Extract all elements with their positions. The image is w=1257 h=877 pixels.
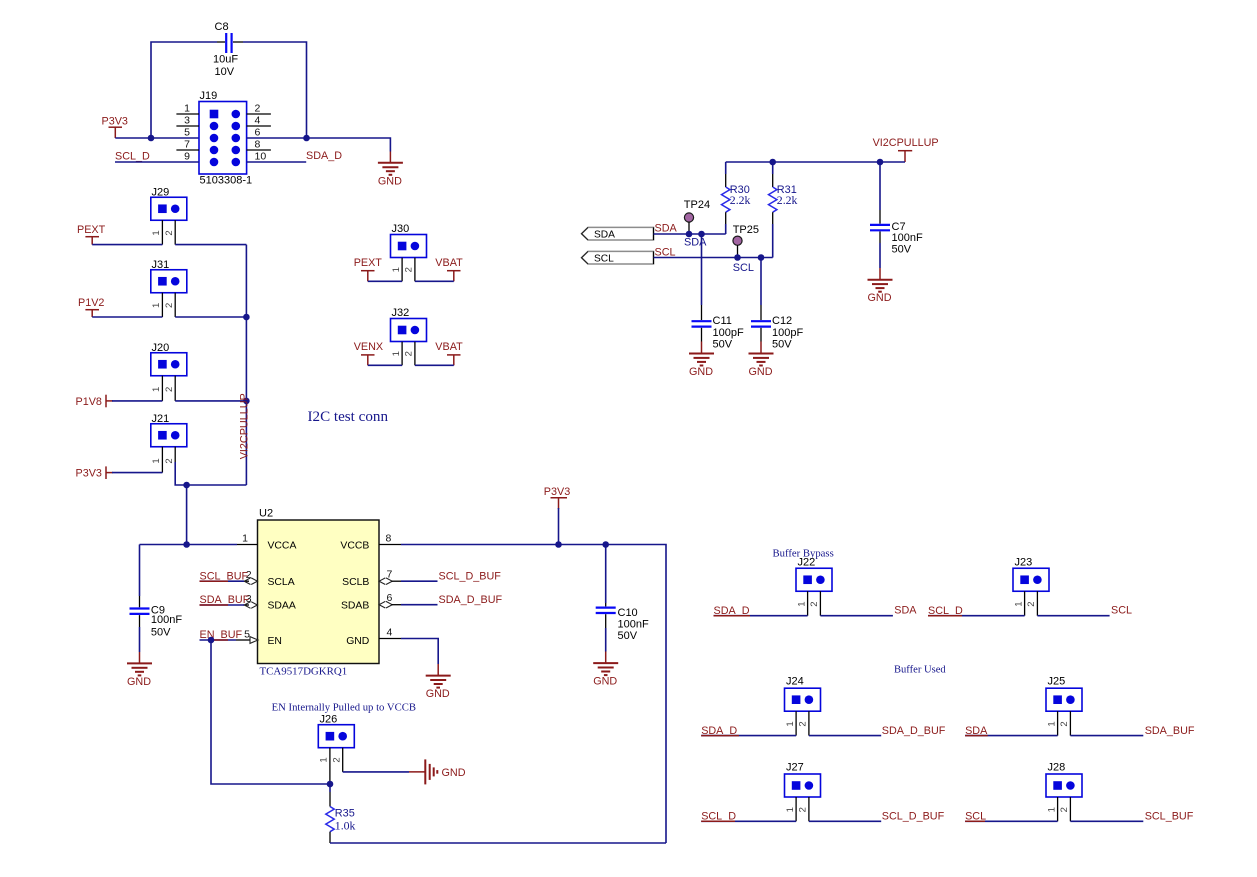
svg-text:5: 5 [184,127,190,139]
wire J29 pin2 to bus [175,244,246,246]
node junction EN/R35/J26 [327,781,334,788]
wire J30 pin2 to VBAT [415,280,454,282]
svg-text:J25: J25 [1048,676,1066,688]
svg-text:VI2CPULLUP: VI2CPULLUP [873,137,939,149]
svg-text:C10: C10 [618,607,638,619]
pin 6 J19 [255,127,261,139]
capacitor C7 [870,162,923,280]
svg-text:1: 1 [391,267,402,272]
power P3V3 (U2) [544,486,570,545]
svg-text:C12: C12 [772,315,792,327]
wire J26 pin2 to GND [343,771,426,773]
svg-text:EN Internally Pulled up to VCC: EN Internally Pulled up to VCCB [272,702,416,714]
svg-text:VENX: VENX [354,341,383,353]
connector J21 [151,413,187,447]
pin 1 U2 VCCA [237,533,258,545]
connector J28 [1046,762,1082,798]
wire PEXT to J30 pin1 [368,280,402,282]
pin 1 J24 [785,711,796,735]
ground GND (J19) [378,152,403,188]
svg-text:TP24: TP24 [684,199,710,211]
svg-text:4: 4 [255,115,261,127]
pin 1 J21 [151,447,162,473]
connector J19 [199,90,252,187]
svg-text:1: 1 [391,351,402,356]
svg-text:EN: EN [268,636,282,647]
pin 3 J19 [176,115,199,127]
pin 4 U2 GND [379,627,401,639]
ground GND (C12) [749,354,774,379]
wire P1V2 to J31 pin1 [92,316,162,318]
svg-text:2: 2 [798,721,809,726]
svg-text:6: 6 [387,592,393,604]
wire VENX to J32 pin1 [368,364,402,366]
net SCL_D (J19 pin9) [115,151,199,163]
node junction J21 pin2 / down wire [183,482,190,489]
svg-text:P3V3: P3V3 [544,486,570,498]
test point TP25 [733,224,759,257]
wire C8 left branch [151,42,217,138]
svg-text:2: 2 [164,230,175,235]
svg-text:10V: 10V [215,66,235,78]
connector J32 [391,307,427,342]
net SCL_BUF [200,571,249,583]
power P1V8 (J20) [76,395,114,408]
net SCL_BUF wire (J28 right) [1070,811,1193,823]
pin 2 J29 [164,220,175,244]
pin 1 J20 [151,376,162,401]
net SDA_D (J19 pin10) [247,150,343,162]
wire J31 pin2 to bus [175,316,246,318]
svg-text:SDAB: SDAB [341,601,369,612]
wire P3V3 to J19 pin5 [115,137,199,139]
node junction SCL/TP25 [734,254,741,261]
svg-text:GND: GND [442,767,466,779]
svg-text:5103308-1: 5103308-1 [200,175,253,187]
svg-text:SCL: SCL [733,262,754,274]
connector J22 [796,557,832,592]
svg-text:7: 7 [184,139,190,151]
svg-text:U2: U2 [259,508,273,520]
wire R35 bottom to right rail [330,842,666,844]
svg-text:2: 2 [404,267,415,272]
svg-text:P3V3: P3V3 [76,468,102,480]
node junction C10/VCCB [602,541,609,548]
net SDA wire (J22 right) [820,605,917,617]
net SCL_D wire (J27 left) [701,811,796,823]
svg-text:SDA_BUF: SDA_BUF [1145,725,1195,737]
svg-text:SCL_D_BUF: SCL_D_BUF [882,811,945,823]
pin 2 J27 [798,797,809,821]
net SDA wire (J25 left) [965,725,1058,737]
svg-text:2: 2 [1059,807,1070,812]
svg-text:7: 7 [387,569,393,581]
wire J20 pin2 to bus [175,400,246,402]
net SCL wire (J23 right) [1037,605,1132,617]
node junction SDA/TP24 [686,231,693,238]
svg-text:SDAA: SDAA [268,601,296,612]
pin 2 J26 [332,748,343,772]
pin 1 J27 [785,797,796,821]
svg-text:5: 5 [244,629,250,641]
svg-text:100nF: 100nF [618,619,649,631]
power VBAT (J32) [435,341,463,366]
net SCL_D wire (J23 left) [928,605,1025,617]
resistor R35 [326,784,356,843]
svg-text:SDA: SDA [594,230,615,241]
power P3V3 (J19) [102,116,128,139]
svg-text:J19: J19 [200,90,218,102]
svg-text:VBAT: VBAT [435,257,463,269]
net EN_BUF [200,629,243,641]
svg-text:P1V8: P1V8 [76,396,102,408]
svg-text:J24: J24 [786,676,804,688]
wire EN_BUF vertical [211,640,330,784]
svg-text:100nF: 100nF [151,614,182,626]
svg-text:Buffer Used: Buffer Used [894,665,946,676]
svg-text:1: 1 [796,601,807,606]
node junction rail/R31 [769,159,776,166]
ground GND (J26, rotated) [425,759,465,784]
pin 8 U2 VCCB [379,533,401,545]
ground GND (C10) [593,663,618,688]
svg-text:J27: J27 [786,762,804,774]
capacitor C8 [213,21,243,78]
svg-text:8: 8 [255,139,261,151]
port SCL (off-page flag) [582,251,654,264]
svg-text:SDA_D: SDA_D [306,150,342,162]
pin 1 J19 [176,103,199,115]
wire SCL_D_BUF [401,571,501,583]
svg-text:10uF: 10uF [213,54,238,66]
net SDA_D wire (J22 left) [714,605,808,617]
net SCL_D_BUF wire (J27 right) [809,811,945,823]
connector J30 [391,223,427,258]
wire SDA_D_BUF [401,594,503,606]
svg-text:1: 1 [1046,721,1057,726]
power P3V3 (J21) [76,466,114,479]
svg-text:1: 1 [242,533,248,545]
capacitor C10 [596,545,649,664]
pin 1 J23 [1013,591,1024,616]
connector J24 [785,676,821,712]
connector J23 [1013,557,1049,592]
pin 2 J25 [1059,711,1070,735]
connector J27 [785,762,821,798]
note Buffer Bypass [773,548,834,560]
capacitor C9 [130,545,183,664]
pin 7 J19 [176,139,199,151]
connector J25 [1046,676,1082,712]
svg-text:VCCB: VCCB [340,540,369,551]
svg-text:I2C test conn: I2C test conn [308,409,389,425]
svg-text:J32: J32 [392,307,410,319]
pin 2 J32 [404,342,415,366]
wire C8 right branch [243,42,307,138]
net VI2CPULLUP power symbol (top right) [873,137,939,162]
svg-text:50V: 50V [892,244,912,256]
svg-text:100pF: 100pF [713,327,744,339]
svg-text:10: 10 [255,151,267,163]
wire VCCA net [140,544,238,546]
svg-text:SDA_D_BUF: SDA_D_BUF [882,725,946,737]
connector J29 [151,187,187,221]
note I2C test conn [308,409,389,425]
connector J20 [151,342,187,376]
node junction SDA/C11 [698,231,705,238]
node junction SCL/C12 [758,254,765,261]
pin 9 J19 [184,151,190,163]
node junction C8-left / pin5 wire [148,135,155,142]
svg-text:SCLB: SCLB [342,577,369,588]
net SDA_D wire (J24 left) [701,725,796,737]
svg-text:50V: 50V [713,338,733,350]
svg-text:4: 4 [387,627,393,639]
svg-text:1: 1 [184,103,190,115]
svg-text:50V: 50V [151,627,171,639]
node bus junction at J31 [243,314,250,321]
svg-text:1: 1 [1013,601,1024,606]
svg-text:PEXT: PEXT [354,257,383,269]
svg-text:SDA: SDA [894,605,917,617]
svg-text:SDA_D_BUF: SDA_D_BUF [439,594,503,606]
svg-text:2: 2 [164,387,175,392]
power VENX (J32) [354,341,383,366]
svg-text:TCA9517DGKRQ1: TCA9517DGKRQ1 [260,666,348,678]
power PEXT (J29) [77,224,106,245]
pin 2 J19 [247,103,271,115]
pin 2 J31 [164,293,175,317]
svg-text:2: 2 [404,351,415,356]
pin 10 J19 [255,151,267,163]
pin 2 U2 SCLA [243,569,257,584]
pin 3 U2 SDAA [243,593,257,608]
pin 1 J31 [151,293,162,317]
svg-text:SCL_D: SCL_D [115,151,150,163]
net SCL wire (J28 left) [965,811,1058,823]
net SDA_D_BUF wire (J24 right) [809,725,946,737]
wire pin4 to GND [401,639,438,676]
ground GND (C7) [868,280,893,305]
connector J31 [151,259,187,293]
capacitor C11 [692,234,744,354]
svg-text:2: 2 [332,757,343,762]
pin 7 U2 SCLB [379,569,401,585]
svg-text:VCCA: VCCA [268,540,297,551]
svg-text:1: 1 [151,230,162,235]
svg-text:1: 1 [151,303,162,308]
wire VI2CPULLUP bus vertical [245,245,247,485]
svg-text:SDA: SDA [655,223,678,235]
svg-text:P1V2: P1V2 [78,297,104,309]
pin 5 J19 [184,127,190,139]
power PEXT (J30) [354,257,383,282]
ground GND (C9) [127,663,152,688]
svg-text:100pF: 100pF [772,327,803,339]
svg-text:2: 2 [164,303,175,308]
svg-text:1: 1 [785,721,796,726]
wire J32 pin2 to VBAT [415,364,454,366]
node junction rail/C7 [877,159,884,166]
wire SCL [654,257,773,259]
svg-text:2: 2 [1059,721,1070,726]
svg-text:50V: 50V [772,338,792,350]
net SDA_BUF wire (J25 right) [1070,725,1195,737]
pin 2 J30 [404,258,415,282]
node junction P3V3/VCCB [555,541,562,548]
svg-text:1: 1 [151,387,162,392]
svg-text:SCL_BUF: SCL_BUF [1145,811,1194,823]
net SDA label (red) [655,223,678,235]
svg-text:SCL: SCL [1111,605,1132,617]
svg-text:6: 6 [255,127,261,139]
pin 5 U2 EN [236,629,258,644]
svg-text:J23: J23 [1015,557,1033,569]
power VBAT (J30) [435,257,463,282]
svg-text:2: 2 [809,601,820,606]
svg-text:TP25: TP25 [733,224,759,236]
power P1V2 (J31) [78,297,104,317]
svg-text:P3V3: P3V3 [102,116,128,128]
svg-text:VBAT: VBAT [435,341,463,353]
net SCL label (blue) [733,262,754,274]
pin 2 J23 [1026,591,1037,616]
pin 2 J20 [164,376,175,401]
svg-text:J22: J22 [798,557,816,569]
svg-text:50V: 50V [618,630,638,642]
pin 6 U2 SDAB [379,592,401,608]
pin 4 J19 [247,115,271,127]
pin 1 J29 [151,220,162,244]
ground GND (C11) [689,354,714,379]
wire junction down to VCCA wire [186,485,188,545]
wire top pullup rail [726,161,905,163]
svg-text:2: 2 [255,103,261,115]
note Buffer Used [894,665,946,676]
connector J26 [318,714,354,748]
pin 1 J26 [319,748,330,784]
node bus junction at J20 [243,398,250,405]
svg-text:VI2CPULLUP: VI2CPULLUP [239,393,251,459]
op-amp U2 (TCA9517 buffer IC) [258,508,380,678]
svg-text:2: 2 [1026,601,1037,606]
svg-text:SCL: SCL [594,254,614,265]
svg-text:3: 3 [184,115,190,127]
node junction VCCA/J21 branch [183,541,190,548]
svg-text:1: 1 [785,807,796,812]
svg-text:2.2k: 2.2k [777,193,798,207]
pin 1 J28 [1046,797,1057,821]
svg-text:9: 9 [184,151,190,163]
wire P1V8 to J20 pin1 [112,400,162,402]
pin 1 J30 [391,258,402,282]
svg-text:8: 8 [386,533,392,545]
svg-text:GND: GND [346,636,369,647]
svg-text:1: 1 [151,458,162,463]
svg-text:C11: C11 [713,315,732,327]
svg-text:2.2k: 2.2k [730,193,751,207]
resistor R30 [722,162,751,234]
svg-text:2: 2 [164,458,175,463]
test point TP24 [684,199,710,234]
pin 1 J22 [796,591,807,616]
svg-text:J28: J28 [1048,762,1066,774]
svg-text:1: 1 [319,757,330,762]
svg-text:2: 2 [798,807,809,812]
wire VCCB net to right rail [401,545,666,844]
pin 2 J24 [798,711,809,735]
wire PEXT to J29 pin1 [92,244,162,246]
svg-text:SDA: SDA [684,236,707,248]
wire J19 pin6 to GND [247,138,391,152]
pin 2 J22 [809,591,820,616]
svg-text:J26: J26 [320,714,338,726]
svg-text:PEXT: PEXT [77,224,106,236]
net SDA label (blue) [684,236,707,248]
svg-text:1: 1 [1046,807,1057,812]
note EN Internally Pulled up to VCCB [272,702,416,714]
net VI2CPULLUP (vertical label) [239,393,251,459]
pin 1 J32 [391,342,402,366]
pin 8 J19 [247,139,271,151]
wire SDA [654,233,726,235]
pin 2 J21 [164,447,175,464]
svg-text:100nF: 100nF [892,232,923,244]
net SDA_BUF [200,594,250,606]
net SCL label (red) [655,247,676,259]
capacitor C12 [751,258,803,354]
svg-text:J30: J30 [392,223,410,235]
pin 1 J25 [1046,711,1057,735]
wire P3V3 to J21 pin1 [112,472,162,474]
ground GND (U2 pin4) [426,676,451,701]
node junction pin6/C8 right [303,135,310,142]
svg-text:SCLA: SCLA [268,577,295,588]
node junction EN_BUF [208,637,215,644]
svg-text:C8: C8 [215,21,229,33]
svg-text:1.0k: 1.0k [335,818,356,832]
port SDA (off-page flag) [582,227,654,240]
svg-text:SCL_D_BUF: SCL_D_BUF [439,571,502,583]
wire J21 pin2 down [175,462,246,485]
pin 2 J28 [1059,797,1070,821]
resistor R31 [769,162,798,258]
